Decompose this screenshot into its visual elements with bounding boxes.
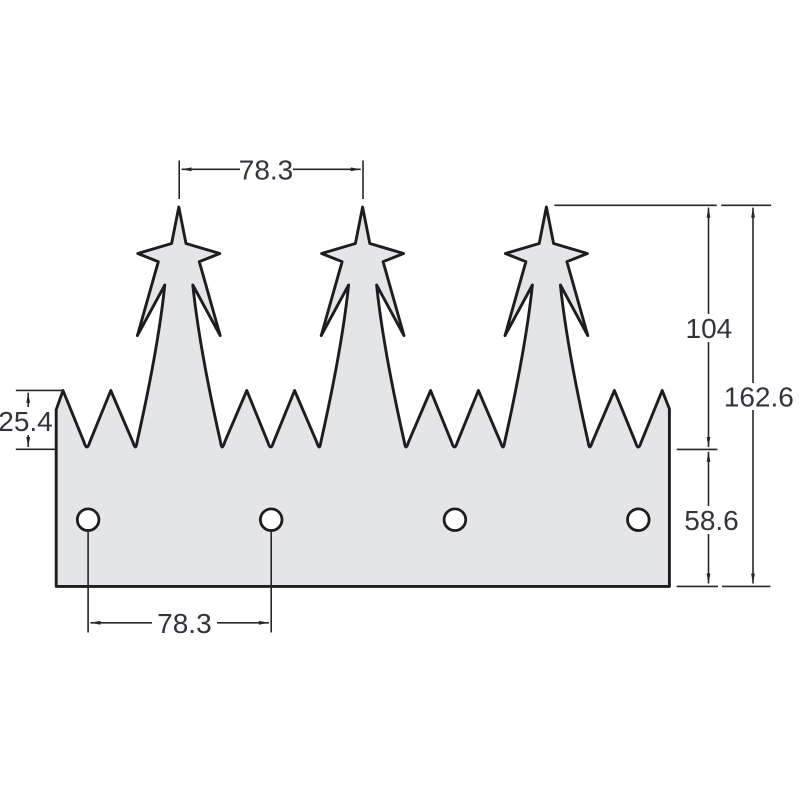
svg-text:78.3: 78.3 <box>239 155 294 186</box>
svg-text:58.6: 58.6 <box>684 505 739 536</box>
svg-text:162.6: 162.6 <box>724 382 794 413</box>
svg-text:78.3: 78.3 <box>157 608 212 639</box>
svg-text:104: 104 <box>686 313 733 344</box>
svg-text:25.4: 25.4 <box>0 406 53 437</box>
